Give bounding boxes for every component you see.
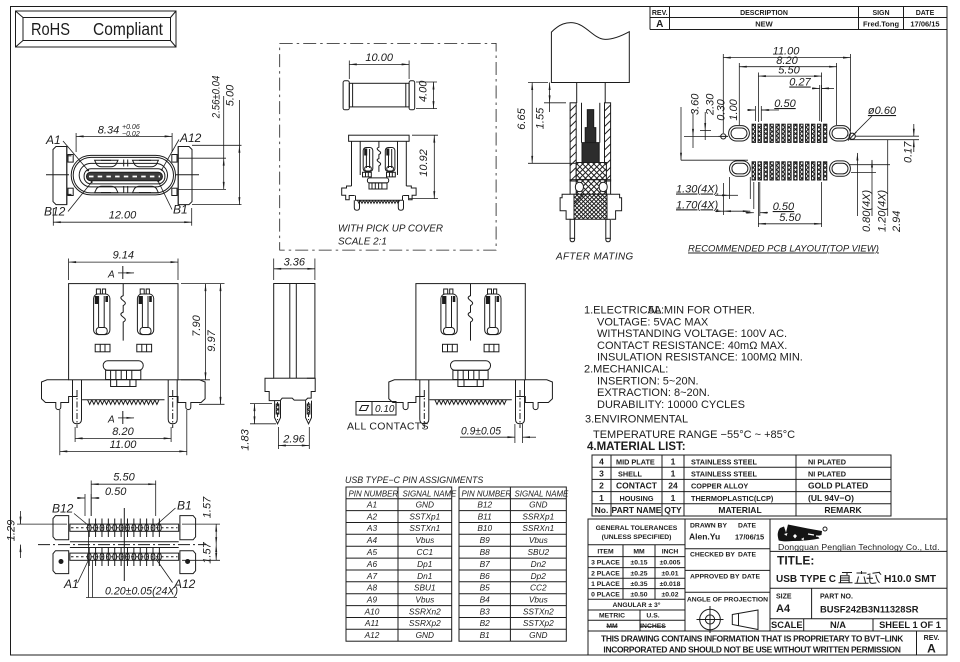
svg-text:SIGNAL NAME: SIGNAL NAME: [515, 489, 570, 498]
svg-text:B12: B12: [44, 205, 66, 219]
svg-text:Dongguan Penglian Technology C: Dongguan Penglian Technology Co., Ltd.: [778, 542, 940, 552]
svg-text:N/A: N/A: [830, 620, 846, 630]
svg-text:4: 4: [599, 456, 604, 466]
svg-text:3.36: 3.36: [284, 256, 306, 268]
svg-text:5.00: 5.00: [225, 84, 237, 106]
svg-text:RECOMMENDED PCB LAYOUT(TOP VIE: RECOMMENDED PCB LAYOUT(TOP VIEW): [688, 244, 879, 255]
svg-text:1.55: 1.55: [535, 107, 547, 129]
svg-text:NI PLATED: NI PLATED: [808, 470, 846, 479]
svg-text:ANGULAR ± 3°: ANGULAR ± 3°: [613, 601, 661, 609]
CJK 直立式 simplified strokes: [839, 571, 882, 583]
logo: [778, 525, 822, 542]
svg-text:B7: B7: [480, 559, 491, 569]
svg-text:INCORPORATED AND SHOULD NOT BE: INCORPORATED AND SHOULD NOT BE USE WITHO…: [603, 645, 900, 655]
svg-text:SBU1: SBU1: [414, 583, 436, 593]
svg-text:A1: A1: [45, 133, 61, 147]
svg-text:QTY: QTY: [664, 505, 682, 515]
svg-text:GND: GND: [529, 630, 547, 640]
svg-text:1.29: 1.29: [5, 520, 17, 541]
svg-text:Vbus: Vbus: [529, 595, 548, 605]
svg-text:±0.02: ±0.02: [662, 592, 679, 599]
svg-text:−0.02: −0.02: [122, 131, 140, 138]
svg-text:SIGNAL NAME: SIGNAL NAME: [403, 489, 458, 498]
svg-text:3.ENVIRONMENTAL: 3.ENVIRONMENTAL: [585, 414, 688, 426]
svg-text:1.20(4X): 1.20(4X): [877, 189, 889, 232]
svg-text:BUSF242B3N11328SR: BUSF242B3N11328SR: [820, 604, 919, 615]
svg-text:PIN NUMBER: PIN NUMBER: [462, 489, 512, 498]
svg-text:B9: B9: [480, 535, 491, 545]
side view 9.14 body: [42, 284, 206, 428]
svg-text:9.14: 9.14: [113, 250, 134, 262]
svg-text:SSTXp2: SSTXp2: [523, 618, 554, 628]
svg-text:4.MATERIAL LIST:: 4.MATERIAL LIST:: [587, 441, 686, 453]
centerline stubs: [46, 174, 69, 176]
svg-text:SIZE: SIZE: [776, 594, 792, 601]
svg-text:Fred.Tong: Fred.Tong: [863, 19, 900, 28]
svg-text:6.65: 6.65: [516, 107, 528, 129]
svg-text:EXTRACTION: 8~20N.: EXTRACTION: 8~20N.: [597, 387, 710, 399]
svg-text:1: 1: [671, 469, 676, 479]
svg-text:±0.35: ±0.35: [631, 581, 648, 588]
svg-text:±0.005: ±0.005: [660, 560, 681, 567]
right mount tab: [178, 147, 192, 205]
center dividers: [124, 160, 128, 194]
svg-text:SSTXn2: SSTXn2: [523, 606, 554, 616]
RoHS stamp: [16, 11, 177, 47]
svg-text:0.10: 0.10: [375, 404, 395, 415]
svg-text:17/06/15: 17/06/15: [735, 533, 764, 542]
svg-text:B1: B1: [177, 499, 192, 513]
svg-text:GOLD PLATED: GOLD PLATED: [808, 481, 868, 491]
svg-text:WITH PICK UP COVER: WITH PICK UP COVER: [338, 224, 443, 235]
svg-text:±0.01: ±0.01: [662, 570, 679, 577]
svg-text:No.: No.: [595, 505, 609, 515]
svg-text:1: 1: [599, 493, 604, 503]
svg-text:B2: B2: [480, 618, 491, 628]
svg-text:SSRXp1: SSRXp1: [522, 511, 554, 521]
top contact windows: [95, 160, 118, 167]
size / part no: [811, 588, 813, 619]
svg-text:+0.06: +0.06: [122, 124, 140, 131]
svg-text:SSRXn2: SSRXn2: [409, 606, 441, 616]
svg-text:SHELL: SHELL: [618, 470, 642, 479]
svg-text:METRIC: METRIC: [599, 612, 625, 619]
svg-text:TITLE:: TITLE:: [777, 554, 814, 568]
svg-text:USB TYPE C: USB TYPE C: [776, 574, 836, 585]
FRONT VIEW top-left: [44, 76, 242, 226]
svg-text:A3: A3: [366, 523, 378, 533]
svg-text:PART NO.: PART NO.: [820, 594, 853, 601]
svg-text:APPROVED BY: APPROVED BY: [690, 574, 740, 581]
third angle projection symbol: [700, 609, 721, 630]
svg-text:0.27: 0.27: [789, 77, 811, 89]
svg-text:5.50: 5.50: [778, 65, 800, 77]
svg-text:0.50: 0.50: [105, 486, 127, 498]
svg-text:1.30(4X): 1.30(4X): [676, 184, 719, 196]
svg-text:MATERIAL: MATERIAL: [718, 505, 761, 515]
svg-text:VOLTAGE: 5VAC MAX: VOLTAGE: 5VAC MAX: [597, 316, 709, 328]
title block: [588, 519, 947, 656]
svg-text:3.60: 3.60: [690, 93, 702, 115]
svg-text:5.50: 5.50: [113, 472, 135, 484]
phantom box scale 2:1: [280, 43, 496, 250]
svg-text:A9: A9: [366, 595, 378, 605]
svg-text:RoHS: RoHS: [31, 19, 70, 39]
svg-text:A10: A10: [364, 606, 380, 616]
svg-text:2.96: 2.96: [282, 433, 305, 445]
svg-text:0.50: 0.50: [774, 98, 796, 110]
svg-text:0.9±0.05: 0.9±0.05: [461, 425, 502, 437]
svg-text:11.00: 11.00: [110, 439, 138, 451]
svg-text:SSTXp1: SSTXp1: [409, 511, 440, 521]
svg-text:HOUSING: HOUSING: [619, 494, 653, 503]
signature column: [685, 548, 770, 550]
pick up cover front view: [342, 135, 438, 210]
svg-text:STAINLESS STEEL: STAINLESS STEEL: [691, 457, 757, 466]
svg-text:±0.15: ±0.15: [631, 560, 648, 567]
svg-text:WITHSTANDING VOLTAGE: 100V AC.: WITHSTANDING VOLTAGE: 100V AC.: [597, 328, 787, 340]
svg-text:SCALE: SCALE: [771, 620, 803, 630]
svg-text:(UL 94V−O): (UL 94V−O): [808, 493, 854, 503]
svg-text:1.57: 1.57: [202, 496, 214, 518]
shell stadium rings: [71, 155, 175, 195]
svg-text:CONTACT: CONTACT: [616, 481, 658, 491]
svg-text:MM: MM: [606, 623, 618, 630]
svg-text:DURABILITY: 10000 CYCLES: DURABILITY: 10000 CYCLES: [597, 399, 745, 411]
notes text: [584, 305, 803, 441]
svg-text:2.56±0.04: 2.56±0.04: [211, 76, 223, 119]
svg-text:B8: B8: [480, 547, 491, 557]
svg-text:±0.018: ±0.018: [660, 581, 681, 588]
svg-text:2 PLACE: 2 PLACE: [591, 570, 620, 577]
svg-text:B4: B4: [480, 595, 491, 605]
svg-text:INSULATION RESISTANCE: 100MΩ M: INSULATION RESISTANCE: 100MΩ MIN.: [597, 352, 803, 364]
svg-text:COPPER ALLOY: COPPER ALLOY: [691, 482, 748, 491]
svg-text:A5: A5: [366, 547, 378, 557]
svg-text:INSERTION: 5~20N.: INSERTION: 5~20N.: [597, 375, 699, 387]
svg-text:ø0.60: ø0.60: [868, 105, 897, 117]
scale row: [803, 619, 805, 631]
svg-text:12.00: 12.00: [109, 210, 137, 222]
svg-text:CC2: CC2: [530, 583, 547, 593]
material list table: [592, 455, 891, 516]
svg-text:DRAWN BY: DRAWN BY: [690, 523, 727, 530]
svg-text:B12: B12: [477, 500, 492, 510]
svg-text:Alen.Yu: Alen.Yu: [689, 532, 720, 542]
svg-text:1 PLACE: 1 PLACE: [591, 581, 620, 588]
svg-text:B11: B11: [478, 511, 492, 521]
svg-text:U.S.: U.S.: [646, 612, 659, 619]
svg-text:SSTXn1: SSTXn1: [409, 523, 440, 533]
svg-text:CHECKED BY: CHECKED BY: [690, 552, 735, 559]
svg-text:DATE: DATE: [738, 523, 756, 530]
svg-text:B10: B10: [477, 523, 492, 533]
svg-text:1.57: 1.57: [202, 541, 214, 563]
svg-text:STAINLESS STEEL: STAINLESS STEEL: [691, 470, 757, 479]
svg-text:A4: A4: [366, 535, 378, 545]
svg-text:DESCRIPTION: DESCRIPTION: [740, 10, 788, 17]
svg-text:0 PLACE: 0 PLACE: [591, 592, 620, 599]
right neck rects: [172, 155, 177, 163]
svg-text:ALL CONTACTS: ALL CONTACTS: [347, 421, 429, 433]
svg-text:B12: B12: [52, 502, 74, 516]
svg-text:Vbus: Vbus: [415, 535, 434, 545]
svg-text:Dn1: Dn1: [417, 571, 432, 581]
chimney view 3.36: [240, 256, 316, 450]
svg-text:2.94: 2.94: [891, 211, 903, 233]
svg-text:A: A: [107, 270, 115, 281]
svg-text:1: 1: [671, 456, 676, 466]
dim 8.34: [75, 133, 77, 152]
svg-text:USB TYPE−C PIN ASSIGNMENTS: USB TYPE−C PIN ASSIGNMENTS: [345, 475, 483, 485]
pick up cover top view: [343, 52, 437, 110]
svg-text:0.17: 0.17: [902, 141, 914, 163]
dim 12.00: [52, 208, 54, 226]
svg-text:0.30: 0.30: [715, 98, 727, 120]
svg-text:A1: A1: [366, 500, 377, 510]
svg-text:Dp2: Dp2: [531, 571, 547, 581]
svg-text:Vbus: Vbus: [529, 535, 548, 545]
svg-text:THERMOPLASTIC(LCP): THERMOPLASTIC(LCP): [691, 494, 774, 503]
svg-text:CONTACT RESISTANCE: 40mΩ MAX.: CONTACT RESISTANCE: 40mΩ MAX.: [597, 340, 787, 352]
svg-text:SBU2: SBU2: [527, 547, 549, 557]
svg-text:H10.0 SMT: H10.0 SMT: [884, 574, 937, 585]
svg-text:SHEEL 1 OF 1: SHEEL 1 OF 1: [879, 620, 941, 630]
left neck rects: [68, 155, 73, 163]
svg-text:±0.50: ±0.50: [631, 592, 648, 599]
svg-text:MM: MM: [633, 549, 645, 556]
svg-text:A12: A12: [364, 630, 380, 640]
svg-text:SSRXp2: SSRXp2: [409, 618, 441, 628]
tolerances box: [588, 544, 685, 546]
svg-text:AFTER MATING: AFTER MATING: [555, 252, 634, 263]
svg-text:9.97: 9.97: [206, 329, 218, 351]
svg-text:1.70(4X): 1.70(4X): [676, 199, 719, 211]
dim 2.56 and 5.00: [192, 144, 242, 146]
svg-text:Dn2: Dn2: [531, 559, 547, 569]
svg-text:REMARK: REMARK: [824, 505, 862, 515]
svg-text:1.83: 1.83: [240, 428, 252, 450]
svg-text:DATE: DATE: [742, 574, 760, 581]
svg-text:INCH: INCH: [662, 549, 679, 556]
svg-text:A: A: [107, 415, 115, 426]
svg-text:2: 2: [599, 481, 604, 491]
svg-text:0.20±0.05(24X): 0.20±0.05(24X): [105, 585, 178, 597]
svg-text:Dp1: Dp1: [417, 559, 432, 569]
svg-text:CC1: CC1: [416, 547, 433, 557]
svg-text:10.92: 10.92: [418, 149, 430, 177]
svg-text:B1: B1: [480, 630, 490, 640]
svg-text:3 PLACE: 3 PLACE: [591, 560, 620, 567]
svg-text:THIS DRAWING CONTAINS INFORMAT: THIS DRAWING CONTAINS INFORMATION THAT I…: [601, 634, 903, 644]
svg-text:SSRXn1: SSRXn1: [522, 523, 554, 533]
pin assignment tables: [345, 475, 569, 641]
svg-text:GND: GND: [529, 500, 547, 510]
disclaimer: [916, 631, 918, 655]
svg-text:A2: A2: [366, 511, 378, 521]
svg-text:INCHES: INCHES: [640, 623, 666, 630]
svg-text:4.00: 4.00: [418, 80, 430, 102]
svg-text:B1: B1: [173, 203, 188, 217]
svg-text:A7: A7: [366, 571, 378, 581]
svg-text:±0.25: ±0.25: [631, 570, 648, 577]
svg-text:SCALE 2:1: SCALE 2:1: [338, 237, 387, 248]
svg-text:1: 1: [671, 493, 676, 503]
svg-text:B3: B3: [480, 606, 491, 616]
front view 0.9 body: [389, 284, 553, 428]
revision table: [650, 7, 947, 30]
svg-text:Compliant: Compliant: [93, 19, 163, 39]
svg-text:A11: A11: [364, 618, 379, 628]
svg-text:3: 3: [599, 469, 604, 479]
svg-text:17/06/15: 17/06/15: [910, 19, 939, 28]
svg-text:A: A: [656, 19, 663, 30]
svg-text:8.34: 8.34: [98, 124, 119, 136]
svg-text:TEMPERATURE RANGE −55°C ~ +85°: TEMPERATURE RANGE −55°C ~ +85°C: [593, 429, 795, 441]
svg-text:8.20: 8.20: [112, 426, 134, 438]
svg-text:5A MIN FOR OTHER.: 5A MIN FOR OTHER.: [648, 305, 755, 317]
title area: [770, 550, 947, 552]
svg-text:MID PLATE: MID PLATE: [616, 457, 655, 466]
left mount tab: [53, 147, 67, 205]
svg-text:REV.: REV.: [652, 10, 668, 17]
svg-text:GENERAL TOLERANCES: GENERAL TOLERANCES: [596, 525, 678, 532]
svg-text:NI PLATED: NI PLATED: [808, 457, 846, 466]
svg-text:Vbus: Vbus: [415, 595, 434, 605]
svg-text:A4: A4: [776, 603, 791, 615]
svg-text:2.MECHANICAL:: 2.MECHANICAL:: [584, 364, 668, 376]
after mating section view: [516, 23, 629, 242]
svg-text:PIN NUMBER: PIN NUMBER: [349, 489, 399, 498]
smt pad bottom view: [5, 472, 220, 598]
svg-text:(UNLESS SPECIFIED): (UNLESS SPECIFIED): [602, 534, 672, 541]
svg-text:B6: B6: [480, 571, 491, 581]
svg-text:7.90: 7.90: [191, 314, 203, 336]
svg-text:ITEM: ITEM: [597, 549, 614, 556]
svg-text:5.50: 5.50: [779, 212, 801, 224]
svg-text:B5: B5: [480, 583, 491, 593]
tongue: [84, 169, 165, 184]
svg-text:GND: GND: [416, 630, 434, 640]
recommended pcb layout view: [676, 46, 919, 234]
svg-text:A1: A1: [63, 577, 79, 591]
svg-text:24: 24: [668, 481, 678, 491]
svg-text:A6: A6: [366, 559, 378, 569]
bottom contact windows: [95, 186, 118, 193]
svg-text:SIGN: SIGN: [872, 10, 889, 17]
svg-text:NEW: NEW: [755, 19, 773, 28]
svg-text:DATE: DATE: [916, 10, 935, 17]
svg-text:ANGLE OF PROJECTION: ANGLE OF PROJECTION: [687, 597, 768, 604]
svg-text:DATE: DATE: [738, 552, 756, 559]
svg-text:0.80(4X): 0.80(4X): [861, 189, 873, 232]
svg-text:A: A: [927, 642, 936, 656]
svg-text:1.00: 1.00: [728, 98, 740, 120]
svg-text:A8: A8: [366, 583, 378, 593]
svg-text:10.00: 10.00: [365, 52, 393, 64]
svg-text:PART NAME: PART NAME: [612, 505, 662, 515]
svg-text:A12: A12: [179, 131, 202, 145]
svg-text:GND: GND: [416, 500, 434, 510]
